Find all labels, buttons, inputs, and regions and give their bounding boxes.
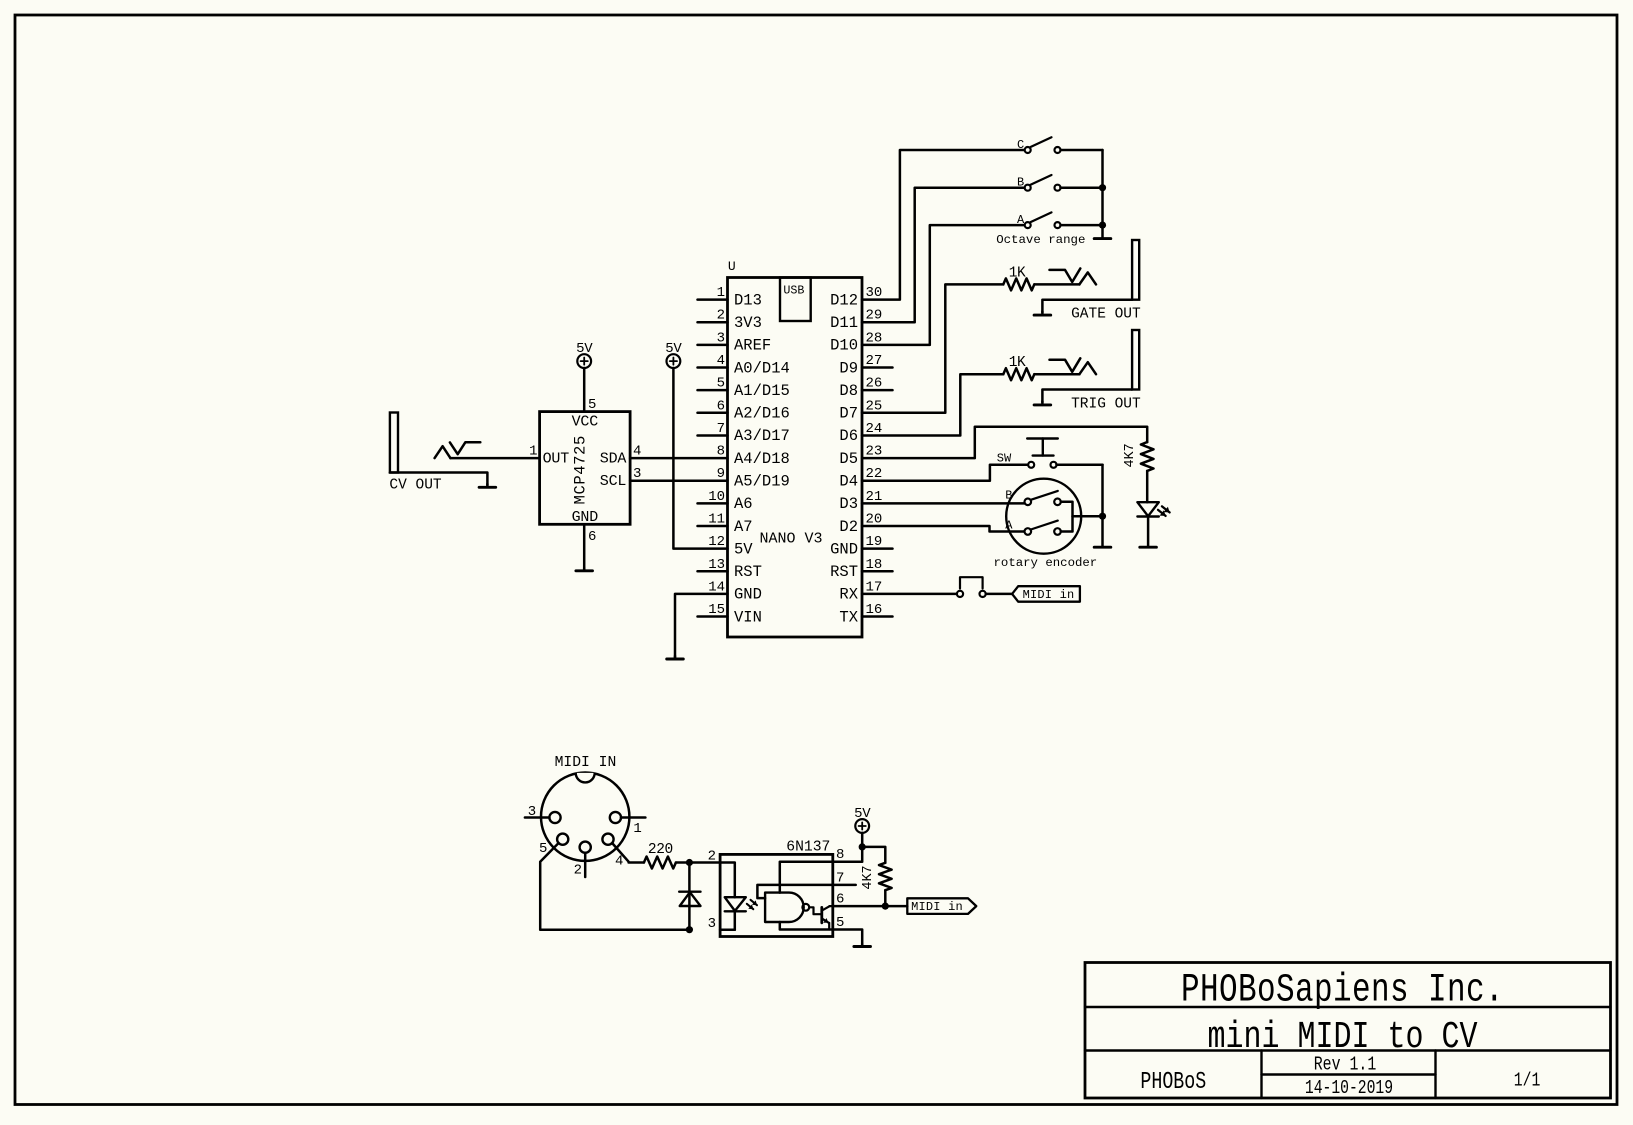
wire CV tip to MCP4725 OUT pin 1 (450, 457, 539, 460)
encoder common wiring (1061, 502, 1103, 532)
svg-text:D8: D8 (839, 382, 858, 400)
U pin 20 (D2) (839, 512, 882, 536)
wire 4K7 to LED (1146, 471, 1149, 502)
svg-text:D6: D6 (839, 427, 858, 445)
svg-text:6N137: 6N137 (786, 839, 830, 855)
resistor 1K (GATE OUT) (1003, 265, 1034, 290)
jack tip contact (GATE OUT) (1050, 269, 1097, 285)
svg-text:CV OUT: CV OUT (389, 477, 442, 493)
wire U pin 14 GND to ground (675, 594, 728, 659)
svg-text:D12: D12 (830, 291, 858, 309)
U pin 4 (A0/D14) (698, 353, 790, 377)
svg-text:SDA: SDA (600, 450, 627, 467)
svg-text:3: 3 (708, 916, 716, 932)
svg-text:1: 1 (717, 285, 725, 301)
net flag MIDI in (output) (907, 898, 976, 914)
wire SW to bus (1057, 464, 1103, 467)
U pin 14 (GND) (708, 579, 762, 603)
ground below U pin 14 (674, 656, 677, 659)
svg-text:A1/D15: A1/D15 (734, 382, 790, 400)
ground LED (1140, 546, 1157, 549)
U pin 27 (D9) (839, 353, 892, 377)
svg-text:1K: 1K (1009, 265, 1026, 281)
wire U pin 21 to encoder B (862, 502, 1025, 505)
svg-text:U: U (728, 259, 736, 274)
svg-text:14-10-2019: 14-10-2019 (1305, 1078, 1393, 1099)
svg-text:D3: D3 (839, 495, 858, 513)
svg-text:5: 5 (717, 376, 725, 392)
resistor 220 (644, 842, 676, 869)
svg-text:A7: A7 (734, 518, 753, 536)
jack CV OUT tip contact symbol (435, 442, 481, 458)
U pin 28 (D10) (830, 330, 882, 354)
U pin 7 (A3/D17) (698, 421, 790, 445)
U pin 8 (A4/D18) (717, 444, 790, 468)
svg-text:19: 19 (866, 534, 883, 550)
junction 5V/4K7 (859, 843, 866, 850)
svg-text:A4/D18: A4/D18 (734, 450, 790, 468)
svg-text:7: 7 (717, 421, 725, 437)
IC 6N137 optocoupler body (720, 854, 833, 936)
svg-text:1/1: 1/1 (1514, 1071, 1541, 1092)
wire jumper to MIDI in flag (986, 593, 1012, 596)
USB connector box on U (780, 278, 811, 322)
svg-text:18: 18 (866, 557, 883, 573)
svg-text:3: 3 (528, 804, 536, 820)
jack CV OUT sleeve rectangle (390, 413, 398, 473)
svg-text:15: 15 (708, 602, 725, 618)
svg-text:A5/D19: A5/D19 (734, 473, 790, 491)
switch B (octave range) (1017, 175, 1061, 191)
wire opto pin 7 stub (833, 884, 856, 887)
wire U pin 20 to encoder A (862, 526, 1025, 532)
svg-text:2: 2 (574, 863, 582, 879)
svg-text:1K: 1K (1009, 355, 1026, 371)
svg-text:3V3: 3V3 (734, 314, 762, 332)
U pin 5 (A1/D15) (698, 376, 790, 400)
svg-text:RST: RST (734, 563, 762, 581)
svg-text:TRIG OUT: TRIG OUT (1071, 396, 1141, 412)
ground sleeve (GATE OUT) (1041, 311, 1044, 315)
svg-text:D5: D5 (839, 450, 858, 468)
wire LED to ground (1147, 517, 1150, 547)
svg-text:13: 13 (708, 557, 725, 573)
ground SW/encoder bus (1094, 546, 1111, 549)
opto internal wiring pin 7 enable (757, 885, 832, 898)
wire 1K to jack tip (GATE OUT) (1034, 283, 1079, 286)
junction encoder common (1099, 513, 1106, 520)
bus vertical octave range (1101, 150, 1104, 238)
opto internal wiring pin 8 (780, 862, 833, 893)
wire opto pin 5 to ground (833, 930, 862, 945)
LED D (indicator) (1137, 502, 1169, 516)
jack tip contact (TRIG OUT) (1050, 358, 1097, 374)
wire 5V down to U pin 12 (673, 368, 727, 549)
svg-text:D10: D10 (830, 337, 858, 355)
svg-text:26: 26 (866, 376, 883, 392)
encoder contact A (1005, 518, 1061, 535)
title block frame (1085, 963, 1611, 1099)
junction diode bottom (686, 926, 693, 933)
svg-text:mini MIDI to CV: mini MIDI to CV (1208, 1016, 1478, 1059)
svg-text:A3/D17: A3/D17 (734, 427, 790, 445)
IC MCP4725 body (540, 412, 631, 526)
U pin 26 (D8) (839, 376, 892, 400)
svg-text:6: 6 (588, 529, 596, 545)
DIN pin 2 (574, 842, 591, 879)
jumper (solder bridge) (957, 577, 986, 597)
junction MIDI in node (882, 903, 889, 910)
U pin 18 (RST) (830, 557, 892, 581)
wire U pin 30 to switch C (862, 150, 1025, 300)
wire 1K to jack tip (TRIG OUT) (1034, 373, 1079, 376)
wire switch B to bus (1061, 186, 1103, 189)
wire DIN pin 4 to 220 resistor (612, 843, 644, 863)
U pin 16 (TX) (839, 602, 892, 626)
svg-text:MCP4725: MCP4725 (572, 435, 590, 504)
U pin 17 (RX) (839, 579, 882, 603)
svg-text:SW: SW (997, 451, 1012, 465)
DIN-5 connector body (541, 773, 629, 861)
svg-text:3: 3 (717, 330, 725, 346)
svg-text:RST: RST (830, 563, 858, 581)
junction diode top (686, 859, 693, 866)
svg-text:2: 2 (717, 308, 725, 324)
wire SCL: MCP4725 pin3 to U pin 9 (630, 479, 727, 482)
wire U to 1K resistor (GATE OUT) (862, 284, 1003, 412)
svg-text:VCC: VCC (572, 413, 599, 430)
ground below MCP4725 (583, 568, 586, 571)
U pin 30 (D12) (830, 285, 882, 309)
svg-text:D4: D4 (839, 473, 858, 491)
svg-text:D2: D2 (839, 518, 858, 536)
svg-text:D9: D9 (839, 359, 858, 377)
svg-text:GND: GND (734, 586, 762, 604)
ground sleeve CV OUT (486, 484, 489, 487)
svg-text:4: 4 (717, 353, 725, 369)
svg-text:A0/D14: A0/D14 (734, 359, 790, 377)
opto internal LED (720, 863, 757, 930)
U pin 15 (VIN) (698, 602, 762, 626)
svg-text:OUT: OUT (543, 450, 570, 467)
wire 220 to opto pin 2 (676, 861, 720, 864)
svg-text:10: 10 (708, 489, 725, 505)
svg-text:D11: D11 (830, 314, 858, 332)
wire switch A to bus (1061, 224, 1103, 227)
ground octave range (1094, 237, 1111, 240)
wire 4K7 to MIDI in node (884, 890, 887, 906)
svg-text:RX: RX (839, 586, 858, 604)
svg-text:11: 11 (708, 512, 725, 528)
svg-text:5V: 5V (576, 341, 593, 357)
U pin 23 (D5) (839, 444, 882, 468)
DIN pin 3 (525, 804, 561, 823)
jack sleeve rectangle (TRIG OUT) (1132, 330, 1139, 390)
svg-text:MIDI IN: MIDI IN (555, 755, 617, 771)
junction octave A (1099, 222, 1106, 229)
U pin 1 (D13) (698, 285, 762, 309)
wire DIN pin 5 to opto pin 3 rail (540, 843, 689, 930)
ground sleeve (TRIG OUT) (1041, 401, 1044, 405)
U pin 3 (AREF) (698, 330, 772, 354)
switch A (octave range) (1017, 212, 1061, 228)
svg-text:B: B (1017, 176, 1024, 190)
svg-text:4K7: 4K7 (1123, 443, 1138, 467)
svg-text:6: 6 (717, 398, 725, 414)
wire jack sleeve (TRIG OUT) (1042, 390, 1132, 403)
DIN pin 5 (539, 834, 568, 857)
diode D1 (reverse protection) (679, 863, 700, 930)
switch C (octave range) (1017, 137, 1061, 153)
svg-text:TX: TX (839, 608, 858, 626)
wire U to 1K resistor (TRIG OUT) (862, 374, 1003, 435)
wire 5V to MCP4725 VCC pin 5 (583, 368, 586, 412)
IC U NANO V3 body (728, 278, 863, 638)
svg-text:5: 5 (588, 397, 596, 413)
U pin 25 (D7) (839, 398, 882, 422)
rotary encoder body circle (1006, 479, 1081, 554)
U pin 9 (A5/D19) (717, 466, 790, 490)
bus vertical SW/encoder (1101, 465, 1104, 547)
U pin 21 (D3) (839, 489, 882, 513)
wire U pin 28 to switch A (862, 225, 1025, 345)
svg-text:5V: 5V (854, 806, 871, 822)
svg-text:Octave range: Octave range (996, 233, 1085, 247)
wire CV sleeve (390, 473, 488, 486)
svg-text:27: 27 (866, 353, 883, 369)
power symbol 5V for MCP4725 (576, 341, 593, 368)
U pin 2 (3V3) (698, 308, 762, 332)
svg-text:B: B (1005, 489, 1012, 503)
svg-text:5V: 5V (665, 341, 682, 357)
U pin 19 (GND) (830, 534, 892, 558)
wire opto pin 6 to flag (833, 905, 908, 908)
jack sleeve rectangle (GATE OUT) (1132, 240, 1139, 300)
power symbol 5V for U pin 12 (665, 341, 682, 368)
junction octave B (1099, 184, 1106, 191)
wire U pin 17 RX to jumper (862, 593, 957, 596)
svg-text:MIDI in: MIDI in (1023, 588, 1075, 602)
wire jack sleeve (GATE OUT) (1042, 300, 1132, 313)
wire U pin 29 to switch B (862, 188, 1025, 323)
svg-text:16: 16 (866, 602, 883, 618)
svg-text:5V: 5V (734, 540, 753, 558)
push button SW (997, 439, 1058, 468)
U pin 22 (D4) (839, 466, 882, 490)
resistor 4K7 (LED) (1123, 442, 1154, 471)
svg-text:PHOBoS: PHOBoS (1140, 1069, 1206, 1096)
resistor 1K (TRIG OUT) (1003, 355, 1034, 380)
wire U pin 23 to 4K7 top (862, 427, 1147, 458)
svg-text:USB: USB (783, 283, 804, 297)
svg-text:D13: D13 (734, 291, 762, 309)
svg-text:rotary encoder: rotary encoder (994, 556, 1098, 570)
svg-text:GATE OUT: GATE OUT (1071, 307, 1141, 323)
opto internal wiring pin 5 (780, 922, 833, 930)
svg-text:C: C (1017, 138, 1024, 152)
U pin 11 (A7) (698, 512, 753, 536)
svg-text:SCL: SCL (600, 473, 627, 490)
U pin 29 (D11) (830, 308, 882, 332)
resistor 4K7 (pull-up) (861, 863, 892, 890)
svg-text:Rev 1.1: Rev 1.1 (1314, 1055, 1377, 1076)
opto internal NAND gate (765, 893, 809, 922)
svg-text:GND: GND (830, 540, 858, 558)
svg-text:4K7: 4K7 (861, 865, 876, 889)
encoder contact B (1005, 489, 1061, 506)
svg-text:A: A (1017, 213, 1025, 227)
svg-text:A6: A6 (734, 495, 753, 513)
wire switch C to bus (1061, 149, 1103, 152)
svg-text:220: 220 (648, 842, 673, 858)
wire 5V to opto pin 8 and 4K7 (833, 833, 862, 862)
net flag MIDI in (input) (1012, 586, 1080, 602)
DIN pin 4 (602, 834, 623, 870)
U pin 24 (D6) (839, 421, 882, 445)
U pin 12 (5V) (708, 534, 753, 558)
svg-text:D7: D7 (839, 405, 858, 423)
DIN pin 1 (610, 812, 646, 837)
svg-text:VIN: VIN (734, 608, 762, 626)
svg-text:NANO V3: NANO V3 (759, 531, 822, 548)
wire junction to 4K7 (862, 847, 885, 863)
wire MCP4725 GND pin 6 to ground (583, 524, 586, 570)
U pin 6 (A2/D16) (698, 398, 790, 422)
svg-text:A2/D16: A2/D16 (734, 405, 790, 423)
ground opto pin 5 (861, 944, 864, 947)
svg-text:2: 2 (708, 849, 716, 865)
svg-text:MIDI in: MIDI in (911, 900, 963, 914)
U pin 10 (A6) (698, 489, 753, 513)
opto output transistor (809, 906, 832, 929)
svg-text:AREF: AREF (734, 337, 771, 355)
power symbol 5V for opto (854, 806, 871, 833)
svg-text:PHOBoSapiens Inc.: PHOBoSapiens Inc. (1181, 967, 1504, 1013)
wire SDA: MCP4725 pin4 to U pin 8 (630, 457, 727, 460)
U pin 13 (RST) (698, 557, 762, 581)
wire U pin 22 to switch SW (862, 465, 1028, 481)
svg-text:A: A (1005, 518, 1013, 532)
svg-text:1: 1 (633, 821, 641, 837)
